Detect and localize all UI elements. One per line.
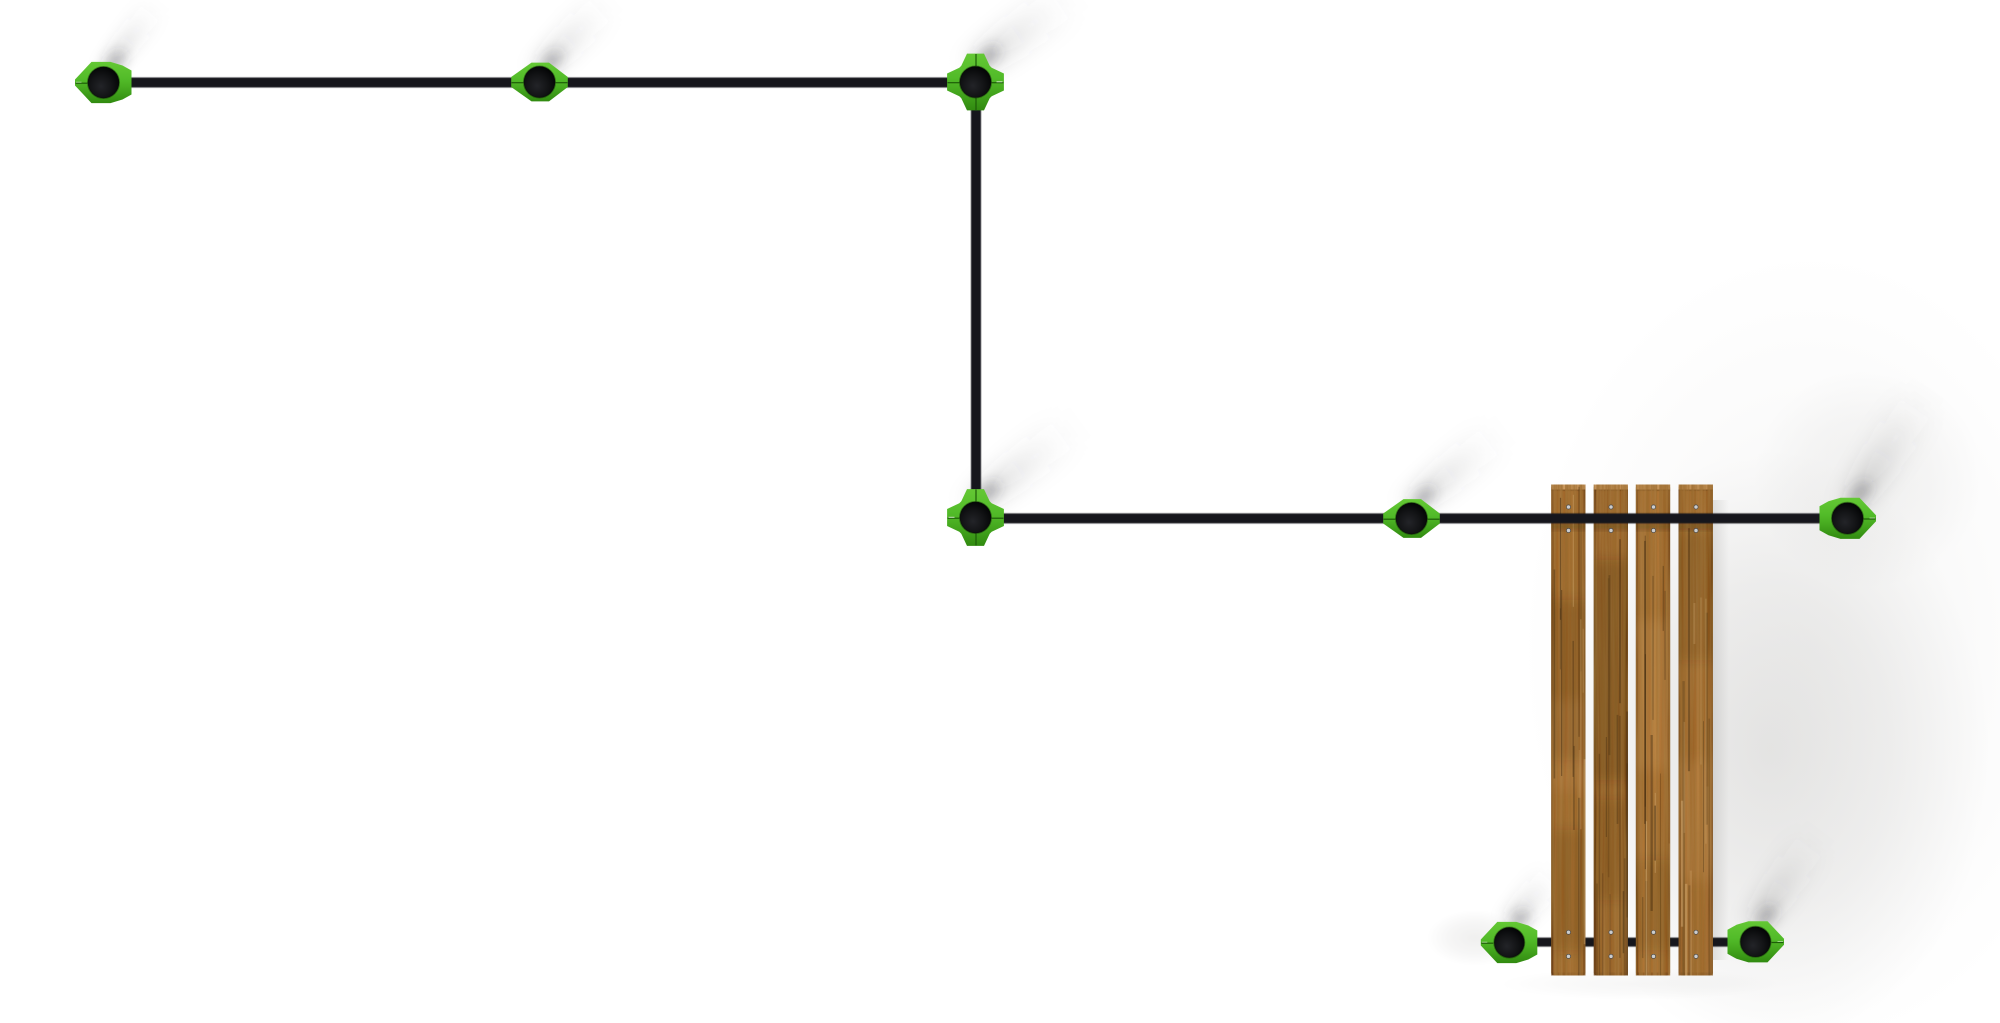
post shadow streak bench right clamp (1739, 827, 1830, 930)
screws top row (1566, 505, 1698, 533)
middle rail bar C (horizontal, over planks) (975, 513, 1848, 523)
warm tone overlay on planks (1545, 480, 1720, 980)
shadow below plank ends (1500, 968, 1780, 1000)
wood grain overlay (1545, 480, 1720, 980)
corner node C: cross clamp (947, 54, 1004, 111)
post shadow streak bench left clamp (1497, 864, 1564, 932)
post shadow streak corner node C (965, 0, 1081, 77)
bench plank 2 (1594, 485, 1628, 976)
shadow of top rail on planks (1549, 524, 1717, 529)
ambient wash upper-right of bench (1753, 368, 1983, 588)
bench plank 1 (1551, 485, 1585, 976)
shadow left of bench left clamp (1427, 910, 1523, 966)
screws bottom row (1566, 930, 1698, 958)
corner node D: cross clamp (947, 489, 1004, 546)
vertical bar B (971, 82, 981, 518)
wood tonal patches (1545, 480, 1720, 980)
bench plank 3 (1636, 485, 1670, 976)
post shadow streak node E (1401, 419, 1508, 513)
post shadow streak node A (95, 0, 165, 74)
bench right end clamp (1728, 921, 1785, 962)
node E: inline clamp (1383, 499, 1440, 538)
bench left end clamp (1481, 922, 1538, 963)
streak base shading blobs (102, 42, 1874, 933)
bench lower frame bar (under planks) (1509, 938, 1756, 947)
post shadow streak node F (1834, 385, 1939, 509)
post shadow streak node B (527, 0, 617, 78)
wood grain streak lines (1554, 487, 1711, 1023)
ambient wash right of bench (1550, 450, 1990, 1023)
node A: left end clamp (75, 62, 132, 103)
top rail bar A (horizontal) (103, 78, 976, 88)
post shadow streak corner node D (965, 411, 1083, 512)
contact shadow right of planks (0, 0, 1, 1)
bench plank 4 (1679, 485, 1713, 976)
node F: right end clamp (1820, 498, 1877, 539)
node B: inline clamp (511, 63, 568, 102)
